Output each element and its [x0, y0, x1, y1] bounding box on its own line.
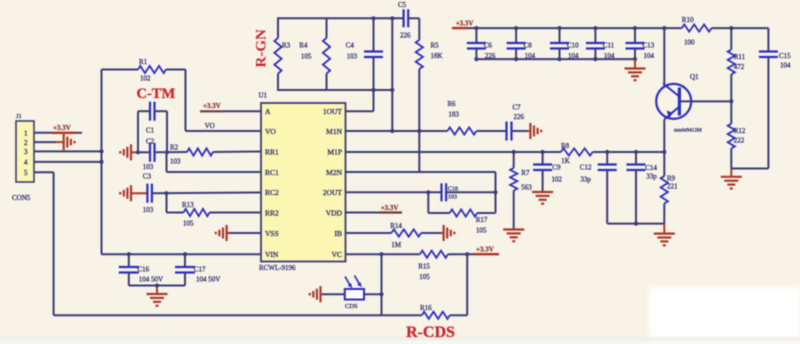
svg-text:mmbt9413M: mmbt9413M — [674, 128, 702, 134]
svg-text:1OUT: 1OUT — [323, 107, 343, 116]
svg-text:U1: U1 — [259, 92, 268, 100]
svg-text:C18: C18 — [448, 186, 458, 193]
svg-text:5: 5 — [24, 169, 28, 177]
svg-text:C12: C12 — [580, 164, 592, 172]
svg-text:C-TM: C-TM — [137, 86, 176, 102]
svg-text:105: 105 — [301, 53, 312, 61]
svg-text:A: A — [265, 107, 271, 116]
svg-text:33p: 33p — [580, 176, 591, 184]
svg-text:R15: R15 — [418, 263, 430, 271]
svg-text:R16: R16 — [420, 304, 432, 312]
svg-text:VSS: VSS — [265, 229, 279, 238]
svg-text:C14: C14 — [645, 164, 657, 172]
svg-text:+3.3V: +3.3V — [203, 102, 221, 110]
svg-text:104: 104 — [568, 52, 579, 60]
svg-text:103: 103 — [170, 158, 181, 166]
svg-text:C4: C4 — [346, 42, 355, 50]
svg-text:2OUT: 2OUT — [323, 188, 343, 197]
svg-text:3: 3 — [24, 148, 28, 156]
svg-text:C1: C1 — [146, 127, 155, 135]
svg-text:VO: VO — [205, 122, 215, 130]
svg-text:VC: VC — [332, 250, 342, 259]
svg-text:R9: R9 — [667, 175, 676, 183]
svg-text:CON5: CON5 — [12, 194, 31, 202]
svg-text:C5: C5 — [398, 1, 407, 9]
svg-text:18K: 18K — [431, 52, 443, 60]
svg-text:103: 103 — [143, 163, 154, 171]
svg-text:R-GN: R-GN — [254, 29, 270, 67]
svg-text:1: 1 — [24, 130, 28, 138]
svg-text:RR2: RR2 — [265, 208, 279, 217]
svg-text:R2: R2 — [170, 144, 179, 152]
svg-text:R4: R4 — [299, 42, 308, 50]
svg-text:R13: R13 — [182, 201, 194, 209]
svg-text:R10: R10 — [682, 16, 694, 24]
svg-text:R6: R6 — [447, 100, 456, 108]
svg-text:102: 102 — [140, 75, 151, 83]
svg-text:RC2: RC2 — [265, 188, 279, 197]
svg-text:VO: VO — [265, 127, 276, 136]
svg-text:226: 226 — [514, 113, 525, 121]
svg-text:Q1: Q1 — [690, 73, 699, 81]
svg-text:104: 104 — [525, 52, 536, 60]
svg-text:M2N: M2N — [326, 168, 342, 177]
svg-text:IB: IB — [335, 229, 343, 238]
svg-text:+3.3V: +3.3V — [456, 20, 474, 28]
svg-text:R3: R3 — [282, 42, 291, 50]
svg-text:105: 105 — [183, 220, 194, 228]
svg-text:100: 100 — [684, 39, 695, 47]
svg-text:VDD: VDD — [326, 208, 343, 217]
svg-text:R-CDS: R-CDS — [406, 324, 455, 341]
svg-text:C9: C9 — [552, 164, 561, 172]
svg-text:183: 183 — [448, 111, 459, 119]
svg-text:222: 222 — [734, 137, 745, 145]
svg-text:1M: 1M — [391, 241, 402, 249]
svg-text:+3.3V: +3.3V — [476, 246, 494, 254]
svg-text:R5: R5 — [431, 42, 440, 50]
svg-text:104 50V: 104 50V — [139, 275, 163, 283]
svg-text:104: 104 — [604, 52, 615, 60]
svg-text:R7: R7 — [521, 169, 530, 177]
svg-text:R8: R8 — [561, 142, 570, 150]
svg-text:103: 103 — [143, 206, 154, 214]
svg-text:2: 2 — [24, 139, 28, 147]
svg-text:C13: C13 — [643, 42, 655, 50]
svg-text:102: 102 — [552, 176, 563, 184]
svg-text:M1N: M1N — [326, 127, 342, 136]
svg-text:226: 226 — [485, 52, 496, 60]
svg-text:R14: R14 — [390, 222, 402, 230]
svg-text:104: 104 — [780, 62, 791, 70]
svg-text:R12: R12 — [734, 127, 746, 135]
svg-text:103: 103 — [448, 194, 457, 201]
svg-text:226: 226 — [400, 32, 411, 40]
svg-text:VIN: VIN — [265, 250, 279, 259]
svg-text:RC1: RC1 — [265, 168, 279, 177]
svg-text:R17: R17 — [476, 216, 488, 224]
svg-text:CDS: CDS — [345, 303, 358, 310]
svg-text:104 50V: 104 50V — [196, 275, 220, 283]
svg-text:C10: C10 — [567, 42, 579, 50]
svg-text:C16: C16 — [138, 265, 150, 273]
svg-text:4: 4 — [24, 159, 28, 167]
svg-text:M1P: M1P — [327, 147, 342, 156]
svg-text:C17: C17 — [194, 265, 206, 273]
svg-text:RR1: RR1 — [265, 147, 279, 156]
svg-text:472: 472 — [734, 63, 745, 71]
svg-text:33p: 33p — [646, 173, 657, 181]
svg-text:+3.3V: +3.3V — [53, 124, 71, 132]
svg-text:J1: J1 — [16, 113, 22, 120]
svg-text:+3.3V: +3.3V — [381, 204, 399, 212]
svg-text:105: 105 — [476, 227, 487, 235]
svg-text:C8: C8 — [524, 42, 533, 50]
svg-text:C11: C11 — [603, 42, 615, 50]
svg-text:C3: C3 — [143, 173, 152, 181]
svg-text:RCWL-9196: RCWL-9196 — [259, 264, 296, 272]
svg-text:C7: C7 — [513, 104, 522, 112]
svg-text:103: 103 — [347, 53, 358, 61]
svg-text:221: 221 — [667, 183, 678, 191]
svg-text:1K: 1K — [561, 157, 570, 165]
svg-text:C15: C15 — [779, 52, 791, 60]
svg-text:C6: C6 — [484, 42, 493, 50]
svg-text:105: 105 — [419, 273, 430, 281]
svg-text:104: 104 — [644, 52, 655, 60]
svg-text:R11: R11 — [734, 53, 746, 61]
svg-text:563: 563 — [521, 184, 532, 192]
svg-text:R1: R1 — [139, 58, 148, 66]
